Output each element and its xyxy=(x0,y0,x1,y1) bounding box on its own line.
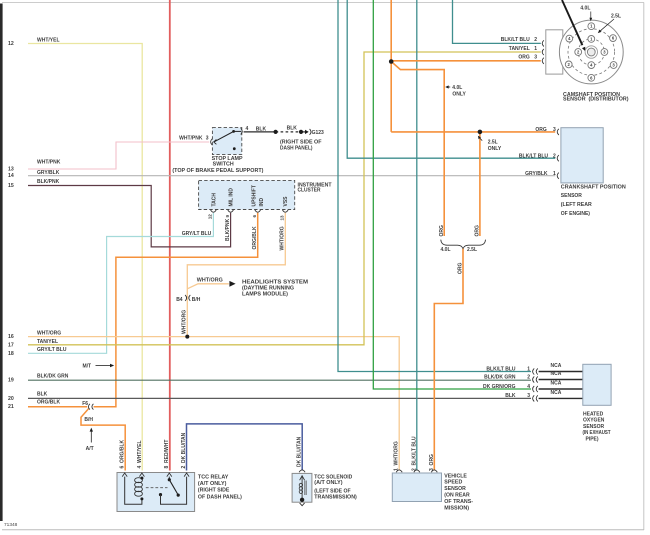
svg-text:DK GRN/ORG: DK GRN/ORG xyxy=(483,384,516,390)
svg-text:TRANSMISSION): TRANSMISSION) xyxy=(314,494,357,500)
svg-text:2 DK BLU/TAN: 2 DK BLU/TAN xyxy=(181,432,187,468)
svg-text:M/T: M/T xyxy=(83,363,92,369)
svg-text:12: 12 xyxy=(8,41,14,47)
svg-text:SENSOR (DISTRIBUTOR): SENSOR (DISTRIBUTOR) xyxy=(563,97,629,103)
svg-text:(IN EXHAUST: (IN EXHAUST xyxy=(583,430,611,436)
svg-text:ORG: ORG xyxy=(518,55,530,61)
svg-text:2: 2 xyxy=(527,374,530,380)
svg-text:NCA: NCA xyxy=(551,371,562,377)
svg-text:OXYGEN: OXYGEN xyxy=(583,418,605,424)
svg-text:ORG: ORG xyxy=(535,127,547,133)
svg-text:2.5L: 2.5L xyxy=(467,247,477,253)
svg-text:2: 2 xyxy=(553,153,556,159)
svg-text:(ON REAR: (ON REAR xyxy=(444,493,470,499)
svg-text:16: 16 xyxy=(8,334,14,340)
svg-text:CRANKSHAFT POSITION: CRANKSHAFT POSITION xyxy=(561,184,626,190)
svg-text:CLUSTER: CLUSTER xyxy=(298,188,321,194)
svg-text:WHT/PNK: WHT/PNK xyxy=(179,135,203,141)
svg-text:14: 14 xyxy=(8,173,14,179)
svg-text:VSS: VSS xyxy=(283,196,289,207)
svg-text:GRY/LT BLU: GRY/LT BLU xyxy=(182,231,212,237)
svg-text:4.0L: 4.0L xyxy=(452,85,462,91)
svg-text:GRY/BLK: GRY/BLK xyxy=(525,171,548,177)
svg-text:ORG/BLK: ORG/BLK xyxy=(37,400,60,406)
svg-text:12: 12 xyxy=(208,214,213,220)
svg-text:TCC RELAY: TCC RELAY xyxy=(198,474,229,480)
svg-text:BLK: BLK xyxy=(256,126,267,132)
svg-text:BLK: BLK xyxy=(287,125,298,131)
svg-text:ORG: ORG xyxy=(458,263,464,275)
svg-text:ORG: ORG xyxy=(474,225,480,237)
svg-text:SENSOR: SENSOR xyxy=(444,486,466,492)
svg-text:G123: G123 xyxy=(312,130,324,136)
svg-text:WHT/ORG: WHT/ORG xyxy=(182,310,188,334)
svg-text:2.5L: 2.5L xyxy=(611,13,621,19)
svg-text:13: 13 xyxy=(280,215,285,221)
svg-text:BLK: BLK xyxy=(37,392,48,398)
svg-text:2: 2 xyxy=(534,37,537,43)
svg-text:TAN/YEL: TAN/YEL xyxy=(37,339,58,345)
svg-text:4: 4 xyxy=(527,384,530,390)
svg-text:BLK: BLK xyxy=(505,393,516,399)
svg-text:(A/T ONLY): (A/T ONLY) xyxy=(198,481,227,487)
svg-text:BLK/DK GRN: BLK/DK GRN xyxy=(37,374,69,380)
svg-text:GRY/BLK: GRY/BLK xyxy=(37,170,60,176)
svg-text:4.0L: 4.0L xyxy=(441,247,451,253)
svg-text:NCA: NCA xyxy=(551,381,562,387)
svg-text:15: 15 xyxy=(8,183,14,189)
svg-text:3: 3 xyxy=(527,393,530,399)
svg-text:1 WHT/ORG: 1 WHT/ORG xyxy=(394,441,400,471)
svg-text:MISSION): MISSION) xyxy=(444,505,469,511)
svg-text:BLK/DK GRN: BLK/DK GRN xyxy=(484,374,516,380)
svg-text:LAMPS MODULE): LAMPS MODULE) xyxy=(242,291,288,297)
svg-text:TAN/YEL: TAN/YEL xyxy=(509,46,530,52)
svg-text:13: 13 xyxy=(8,167,14,173)
svg-text:ONLY: ONLY xyxy=(488,146,502,152)
svg-text:6: 6 xyxy=(252,215,257,218)
svg-text:VEHICLE: VEHICLE xyxy=(444,473,467,479)
svg-text:IND: IND xyxy=(259,198,265,207)
svg-text:(LEFT REAR: (LEFT REAR xyxy=(561,202,592,208)
svg-text:SENSOR: SENSOR xyxy=(561,193,583,199)
svg-text:4.0L: 4.0L xyxy=(580,5,590,11)
svg-text:MIL IND: MIL IND xyxy=(229,188,235,207)
svg-text:3: 3 xyxy=(553,127,556,133)
svg-text:SPEED: SPEED xyxy=(444,480,462,486)
svg-text:NCA: NCA xyxy=(551,363,562,369)
svg-text:19: 19 xyxy=(8,378,14,384)
svg-text:1: 1 xyxy=(527,366,530,372)
svg-text:4: 4 xyxy=(246,126,249,132)
svg-text:ORG: ORG xyxy=(439,225,445,237)
svg-text:3: 3 xyxy=(534,55,537,61)
svg-text:NCA: NCA xyxy=(551,390,562,396)
svg-text:2.5L: 2.5L xyxy=(488,139,498,145)
svg-text:1: 1 xyxy=(534,46,537,52)
svg-text:DK BLU/TAN: DK BLU/TAN xyxy=(297,436,303,467)
svg-text:BLK/LT BLU: BLK/LT BLU xyxy=(519,153,548,159)
svg-text:GRY/LT BLU: GRY/LT BLU xyxy=(37,347,67,353)
svg-text:17: 17 xyxy=(8,342,14,348)
svg-text:71348: 71348 xyxy=(4,522,18,528)
svg-text:6 ORG/BLK: 6 ORG/BLK xyxy=(120,439,126,468)
svg-text:2 BLK/LT BLU: 2 BLK/LT BLU xyxy=(411,436,417,471)
svg-text:WHT/ORG: WHT/ORG xyxy=(280,226,286,250)
svg-text:1: 1 xyxy=(553,171,556,177)
svg-text:DASH PANEL): DASH PANEL) xyxy=(280,145,313,151)
svg-text:B4: B4 xyxy=(176,297,183,303)
svg-text:ORG/BLK: ORG/BLK xyxy=(252,226,258,249)
svg-text:SWITCH: SWITCH xyxy=(213,162,234,168)
svg-text:BLK/PNK: BLK/PNK xyxy=(225,218,231,241)
svg-text:(A/T ONLY): (A/T ONLY) xyxy=(314,480,343,486)
svg-text:BLK/LT BLU: BLK/LT BLU xyxy=(501,37,530,43)
svg-text:PIPE): PIPE) xyxy=(586,436,599,442)
svg-text:F6: F6 xyxy=(82,401,88,407)
svg-text:B/H: B/H xyxy=(84,417,93,423)
svg-text:UPSHIFT: UPSHIFT xyxy=(251,185,257,206)
svg-text:(RIGHT SIDE: (RIGHT SIDE xyxy=(198,488,230,494)
svg-text:(TOP OF BRAKE PEDAL SUPPORT): (TOP OF BRAKE PEDAL SUPPORT) xyxy=(172,168,263,174)
svg-text:OF TRANS-: OF TRANS- xyxy=(444,499,473,505)
svg-text:21: 21 xyxy=(8,404,14,410)
svg-text:9: 9 xyxy=(225,215,230,218)
svg-text:WHT/ORG: WHT/ORG xyxy=(37,331,61,337)
svg-text:B/H: B/H xyxy=(192,297,201,303)
svg-text:SENSOR: SENSOR xyxy=(583,424,605,430)
svg-text:WHT/YEL: WHT/YEL xyxy=(37,37,60,43)
svg-text:BLK/PNK: BLK/PNK xyxy=(37,179,60,185)
svg-text:3 ORG: 3 ORG xyxy=(429,454,435,471)
svg-text:TACH: TACH xyxy=(211,193,217,207)
svg-text:A/T: A/T xyxy=(86,446,94,452)
svg-text:BLK/LT BLU: BLK/LT BLU xyxy=(486,366,515,372)
svg-text:3: 3 xyxy=(206,135,209,141)
svg-text:OF DASH PANEL): OF DASH PANEL) xyxy=(198,494,242,500)
svg-text:WHT/PNK: WHT/PNK xyxy=(37,160,61,166)
svg-text:20: 20 xyxy=(8,396,14,402)
svg-text:4 WHT/YEL: 4 WHT/YEL xyxy=(137,440,143,468)
svg-text:ONLY: ONLY xyxy=(452,91,466,97)
svg-text:HEATED: HEATED xyxy=(583,412,604,418)
svg-text:WHT/ORG: WHT/ORG xyxy=(197,278,223,284)
svg-text:18: 18 xyxy=(8,351,14,357)
svg-text:8 RED/WHT: 8 RED/WHT xyxy=(164,440,170,469)
svg-text:OF ENGINE): OF ENGINE) xyxy=(561,211,591,217)
